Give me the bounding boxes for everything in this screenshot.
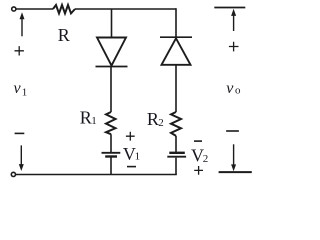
svg-text:R: R (80, 108, 92, 128)
svg-text:o: o (235, 85, 241, 97)
svg-text:R: R (58, 25, 70, 45)
svg-text:2: 2 (158, 117, 164, 129)
svg-text:R: R (147, 109, 159, 129)
svg-text:1: 1 (135, 151, 141, 163)
svg-text:1: 1 (22, 87, 28, 99)
svg-text:2: 2 (203, 153, 209, 165)
svg-text:1: 1 (91, 115, 97, 127)
svg-text:v: v (226, 80, 234, 97)
svg-text:v: v (14, 80, 22, 97)
